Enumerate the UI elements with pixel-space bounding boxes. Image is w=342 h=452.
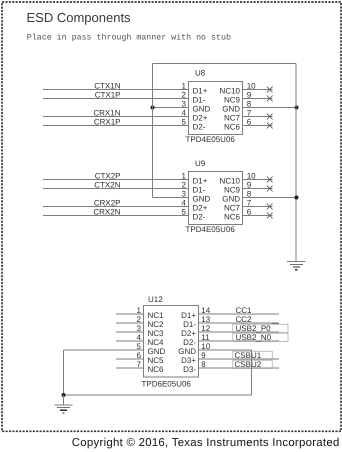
no-connect X on U8 pin 10 — [267, 87, 273, 93]
svg-text:D3-: D3- — [183, 365, 196, 374]
wire GND bus left vertical — [152, 64, 154, 198]
svg-text:D2-: D2- — [193, 123, 206, 132]
svg-text:ESD Components: ESD Components — [27, 10, 132, 25]
wire GND stem to left ground symbol — [63, 395, 65, 405]
U9 right pin numbers 10,9,8,7,6 — [247, 172, 256, 217]
svg-text:NC6: NC6 — [224, 123, 241, 132]
svg-text:GND: GND — [222, 105, 240, 114]
wire U12 pin 10 GND stub — [199, 349, 252, 351]
svg-text:NC7: NC7 — [224, 204, 241, 213]
no-connect X on U8 pin 7 — [267, 114, 273, 120]
svg-text:D1-: D1- — [183, 320, 196, 329]
port USB2_N0 — [233, 333, 288, 342]
svg-text:D3+: D3+ — [181, 356, 196, 365]
svg-text:D2+: D2+ — [193, 114, 208, 123]
no-connect X on U9 pin 9 — [267, 186, 273, 192]
svg-text:CTX2N: CTX2N — [94, 181, 120, 190]
wire net USB2_N0 from U12 pin 11 — [199, 340, 280, 342]
wire U8 pin 8 GND to right GND bus — [243, 107, 297, 109]
IC U9 body — [189, 172, 243, 225]
no-connect X on U9 pin 7 — [267, 204, 273, 210]
wire U9 pin 10 stub (no connect) — [243, 179, 273, 181]
svg-text:TPD6E05U06: TPD6E05U06 — [142, 380, 192, 389]
svg-text:NC10: NC10 — [220, 87, 241, 96]
svg-text:U12: U12 — [148, 295, 163, 304]
wire U8 pin 6 stub (no connect) — [243, 125, 273, 127]
wire U9 pin 6 stub (no connect) — [243, 215, 273, 217]
svg-text:D1+: D1+ — [193, 87, 208, 96]
wire GND to U8 pin 3 — [153, 107, 189, 109]
svg-text:USB2_P0: USB2_P0 — [236, 324, 272, 333]
wire U12 pin 3 stub — [116, 331, 144, 333]
svg-text:U9: U9 — [195, 159, 206, 168]
IC U8 body — [189, 82, 243, 135]
junction GND bus at U8 pin 8 — [295, 106, 299, 110]
wire net CTX2N to U9 pin 2 — [43, 188, 189, 190]
wire U8 pin 7 stub (no connect) — [243, 116, 273, 118]
svg-text:GND: GND — [222, 195, 240, 204]
svg-text:NC3: NC3 — [148, 329, 165, 338]
svg-text:CC1: CC1 — [236, 306, 253, 315]
svg-text:GND: GND — [193, 195, 211, 204]
U8 left pin numbers 1,2,3,4,5 — [182, 82, 187, 127]
U9 pin name labels — [193, 177, 241, 222]
svg-text:Copyright © 2016, Texas Instru: Copyright © 2016, Texas Instruments Inco… — [72, 437, 340, 449]
svg-text:NC4: NC4 — [148, 338, 165, 347]
svg-text:NC1: NC1 — [148, 311, 165, 320]
svg-text:NC9: NC9 — [224, 96, 241, 105]
wire U9 pin 8 GND to right GND bus — [243, 197, 297, 199]
wire net USB2_P0 from U12 pin 12 — [199, 331, 280, 333]
svg-text:CTX2P: CTX2P — [95, 172, 121, 181]
svg-text:CC2: CC2 — [236, 315, 253, 324]
port CSBU2 — [233, 360, 272, 369]
svg-text:NC10: NC10 — [220, 177, 241, 186]
junction GND at left ground — [62, 393, 66, 397]
wire net CTX2P to U9 pin 1 — [43, 179, 189, 181]
svg-text:D1-: D1- — [193, 186, 206, 195]
svg-text:CTX1N: CTX1N — [94, 82, 120, 91]
svg-text:D2+: D2+ — [181, 329, 196, 338]
IC U12 body — [144, 306, 199, 378]
svg-text:TPD4E05U06: TPD4E05U06 — [186, 225, 236, 234]
wire net CRX2P to U9 pin 4 — [43, 206, 189, 208]
wire U9 pin 7 stub (no connect) — [243, 206, 273, 208]
svg-text:TPD4E05U06: TPD4E05U06 — [186, 135, 236, 144]
port USB2_P0 — [233, 324, 288, 333]
wire net CSBU2 from U12 pin 8 — [199, 367, 280, 369]
U8 pin name labels — [193, 87, 241, 132]
svg-text:USB2_N0: USB2_N0 — [236, 333, 272, 342]
ground symbol left GND net — [54, 405, 72, 413]
wire U12 pin 1 stub — [116, 313, 144, 315]
no-connect X on U9 pin 6 — [267, 213, 273, 219]
wire net CTX1P to U8 pin 2 — [43, 98, 189, 100]
svg-text:CSBU2: CSBU2 — [235, 360, 262, 369]
U8 right pin numbers 10,9,8,7,6 — [247, 82, 256, 127]
svg-text:CRX2N: CRX2N — [93, 208, 120, 217]
wire net CRX1N to U8 pin 4 — [43, 116, 189, 118]
junction GND bus at U9 pin 8 — [295, 196, 299, 200]
svg-text:NC7: NC7 — [224, 114, 241, 123]
svg-text:D2-: D2- — [193, 213, 206, 222]
wire net CTX1N to U8 pin 1 — [43, 89, 189, 91]
wire U8 pin 9 stub (no connect) — [243, 98, 273, 100]
svg-text:NC5: NC5 — [148, 356, 165, 365]
wire net CRX1P to U8 pin 5 — [43, 125, 189, 127]
wire GND to U12 pin 5 — [64, 349, 144, 351]
wire GND bottom horizontal — [64, 394, 252, 396]
svg-text:CRX2P: CRX2P — [94, 199, 121, 208]
svg-text:CRX1N: CRX1N — [93, 109, 120, 118]
svg-text:U8: U8 — [195, 69, 206, 78]
off-page marker on CC2 wire end — [272, 323, 279, 325]
wire U12 pin 4 stub — [116, 340, 144, 342]
wire net CC2 from U12 pin 13 — [199, 322, 280, 324]
svg-text:Place in pass through manner w: Place in pass through manner with no stu… — [27, 33, 231, 43]
svg-text:NC6: NC6 — [224, 213, 241, 222]
svg-text:CSBU1: CSBU1 — [235, 351, 262, 360]
svg-text:D2-: D2- — [183, 338, 196, 347]
svg-text:GND: GND — [178, 347, 196, 356]
wire net CC1 from U12 pin 14 — [199, 313, 280, 315]
svg-text:CRX1P: CRX1P — [94, 118, 121, 127]
no-connect X on U8 pin 9 — [267, 96, 273, 102]
junction GND net at U8 pin 3 — [151, 106, 155, 110]
no-connect X on U8 pin 6 — [267, 123, 273, 129]
wire net CSBU1 from U12 pin 9 — [199, 358, 280, 360]
svg-text:NC2: NC2 — [148, 320, 165, 329]
wire U8 pin 10 stub (no connect) — [243, 89, 273, 91]
svg-text:D1+: D1+ — [181, 311, 196, 320]
wire net CRX2N to U9 pin 5 — [43, 215, 189, 217]
wire GND to U9 pin 3 — [153, 197, 189, 199]
U12 right pin numbers 14,13,12,11,10,9,8 — [201, 306, 210, 369]
no-connect X on U9 pin 10 — [267, 177, 273, 183]
svg-text:D2+: D2+ — [193, 204, 208, 213]
wire GND vertical from U12 pin 10 — [250, 350, 252, 395]
wire U9 pin 9 stub (no connect) — [243, 188, 273, 190]
svg-text:CTX1P: CTX1P — [95, 91, 121, 100]
svg-text:GND: GND — [193, 105, 211, 114]
wire U12 pin 6 stub — [116, 358, 144, 360]
U9 left pin numbers 1,2,3,4,5 — [182, 172, 187, 217]
U12 left pin numbers 1,2,3,4,5,6,7 — [137, 306, 142, 369]
svg-text:NC9: NC9 — [224, 186, 241, 195]
svg-text:NC6: NC6 — [148, 365, 165, 374]
svg-text:GND: GND — [148, 347, 166, 356]
wire U12 pin 7 stub — [116, 367, 144, 369]
svg-text:D1+: D1+ — [193, 177, 208, 186]
wire GND bus top horizontal — [153, 63, 297, 65]
ground symbol right GND net — [287, 262, 305, 270]
U12 pin name labels — [148, 311, 197, 374]
port CSBU1 — [233, 351, 272, 360]
wire GND vertical from U12 pin 5 — [63, 350, 65, 395]
svg-text:D1-: D1- — [193, 96, 206, 105]
wire U12 pin 2 stub — [116, 322, 144, 324]
wire GND bus right vertical — [295, 64, 297, 262]
